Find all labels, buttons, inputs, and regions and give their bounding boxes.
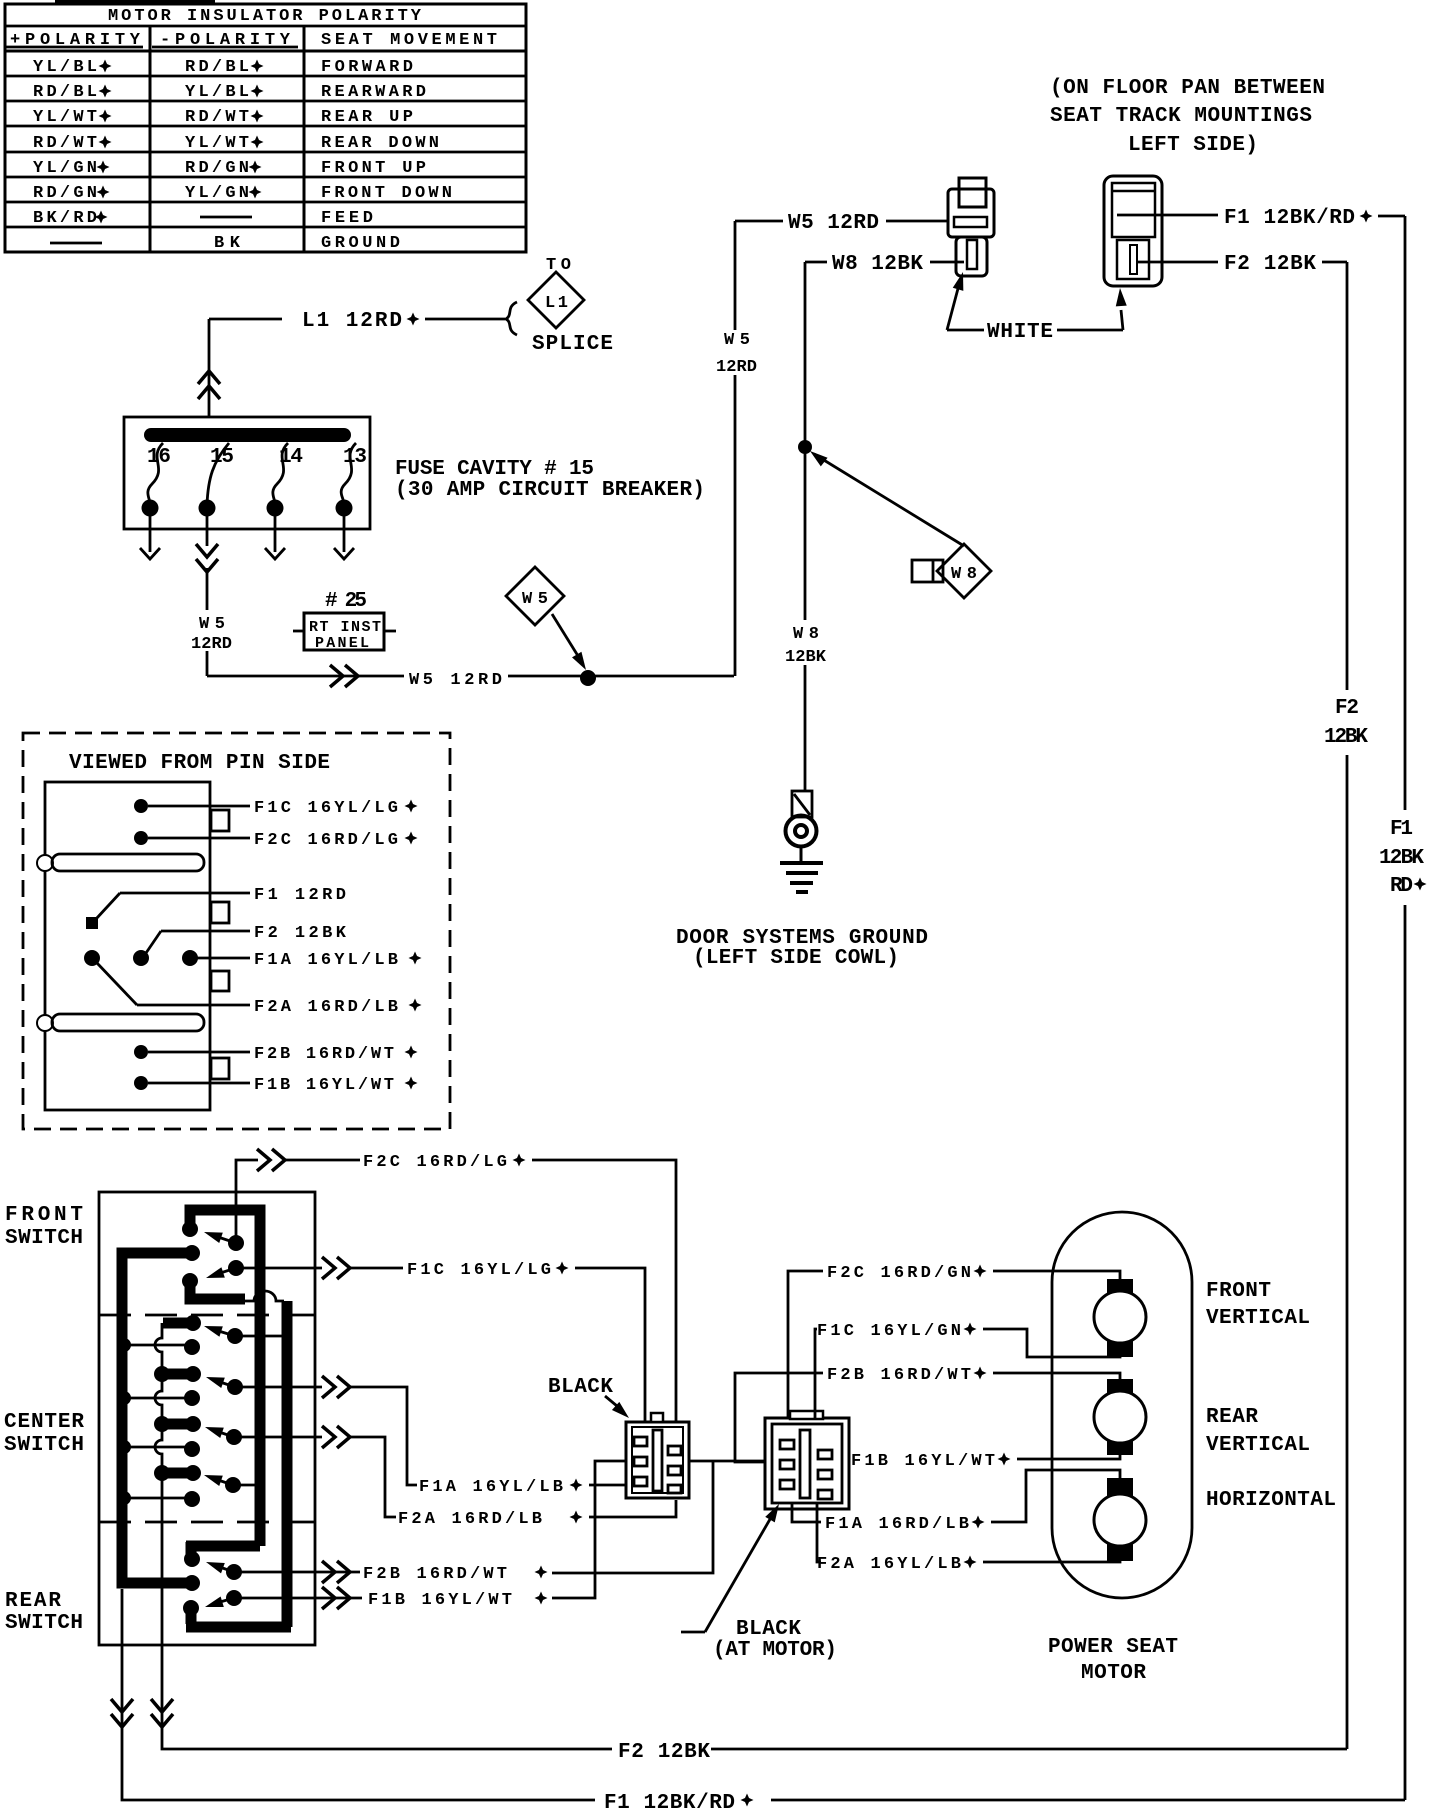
table row GROUND [50,234,400,253]
wire F2B motor label to comb [735,1373,823,1462]
thick stub center row2 [162,1369,193,1380]
table row FRONT UP [33,159,426,178]
svg-text:RT INST: RT INST [309,619,381,636]
motor front vertical [1094,1291,1146,1343]
connector white (left, W5/W8) [948,178,994,276]
svg-text:SPLICE: SPLICE [532,333,613,356]
wiper center row3 (F2A) [226,1429,242,1445]
thick trace front C-shape [190,1210,260,1546]
contact dots center stubs [185,1315,201,1331]
svg-text:PANEL: PANEL [315,635,369,652]
fuse element 13 [341,443,356,504]
arc hop over bus to right trace [245,1291,284,1301]
svg-text:12RD: 12RD [716,358,757,377]
svg-text:13: 13 [343,446,367,469]
svg-text:F2 12BK: F2 12BK [618,1741,710,1764]
svg-text:REAR: REAR [5,1590,61,1613]
svg-text:-POLARITY: -POLARITY [160,31,291,50]
svg-text:12BK: 12BK [1379,847,1424,870]
svg-text:W5 12RD: W5 12RD [409,671,502,690]
svg-text:# 25: # 25 [325,590,367,613]
svg-text:F2C 16RD/GN: F2C 16RD/GN [827,1264,971,1283]
wiper center row1 [227,1328,243,1344]
wiper center row4 [225,1477,241,1493]
connector left notches [37,855,53,871]
fuse 14 output arrow [265,515,285,559]
wiper rear row1 (F2B) [226,1564,242,1580]
wire F2C label to comb [532,1160,676,1424]
wire W5 12RD right vertical [735,221,783,676]
svg-text:(ON FLOOR PAN BETWEEN: (ON FLOOR PAN BETWEEN [1050,77,1325,100]
thick stub center row3 [162,1419,193,1430]
splice symbol W8 [937,544,991,598]
wire F1 12BK/RD bottom [771,1799,1405,1802]
svg-text:F2B 16RD/WT: F2B 16RD/WT [363,1565,507,1584]
pin F2 [146,931,250,953]
svg-text:REAR: REAR [1206,1406,1258,1429]
svg-text:F1A 16YL/LB: F1A 16YL/LB [254,951,398,970]
thick stub center row4 [162,1468,193,1479]
table row FEED [33,209,373,228]
svg-text:VIEWED FROM PIN SIDE: VIEWED FROM PIN SIDE [69,752,330,775]
lone contact dots center [184,1339,200,1355]
svg-text:(30 AMP CIRCUIT BREAKER): (30 AMP CIRCUIT BREAKER) [395,479,705,502]
arrow WHITE to left connector [947,270,984,330]
svg-text:F2: F2 [1335,697,1359,720]
svg-text:MOTOR: MOTOR [1081,1662,1146,1685]
svg-text:F1A 16RD/LB: F1A 16RD/LB [825,1515,969,1534]
chevron F2C [257,1149,285,1171]
svg-text:LEFT SIDE): LEFT SIDE) [1128,134,1258,157]
wire F1C label to comb [575,1268,645,1424]
wire F2B label to right [552,1460,713,1573]
wire W8 12BK to connector [805,261,964,264]
splice squiggle [506,302,517,335]
svg-text:FRONT: FRONT [1206,1280,1271,1303]
svg-text:+POLARITY: +POLARITY [10,31,141,50]
svg-text:RD: RD [1390,875,1413,898]
table row REAR UP [33,108,413,127]
chevron down exit left [111,1699,133,1727]
thick stub center row1 [163,1318,196,1329]
svg-text:POWER SEAT: POWER SEAT [1048,1636,1178,1659]
thick trace right bus2 [282,1301,293,1627]
wire F1C motor [815,1329,817,1418]
wiper rear row2 (F1B) [226,1590,242,1606]
pin F1C [134,799,148,813]
svg-text:F1A 16YL/LB: F1A 16YL/LB [419,1478,563,1497]
wiper front row2 (F1C) [228,1260,244,1276]
wire F1A motor [792,1503,821,1522]
svg-text:12BK: 12BK [785,648,827,667]
svg-text:W8 12BK: W8 12BK [832,253,923,276]
svg-text:FUSE CAVITY # 15: FUSE CAVITY # 15 [395,458,594,481]
fuse 13 output arrow [334,515,354,559]
svg-text:WHITE: WHITE [987,321,1053,344]
power seat motor housing [1052,1212,1192,1598]
chevron up on L1 wire [198,371,220,399]
splice symbol L1 [528,272,584,328]
svg-text:YL/GN: YL/GN [185,184,249,203]
wire chain with hops (center common) [155,1323,612,1749]
wire F1A label to comb [589,1484,640,1487]
svg-text:F2 12BK: F2 12BK [1224,253,1316,276]
motor horizontal terminals [1107,1478,1133,1497]
svg-text:REAR DOWN: REAR DOWN [321,134,439,153]
svg-text:BK/RD: BK/RD [33,209,97,228]
svg-text:RD/GN: RD/GN [33,184,97,203]
table row FORWARD [33,58,413,77]
chevron down exit right [151,1699,173,1727]
svg-text:FORWARD: FORWARD [321,58,413,77]
wire F2C motor [788,1271,823,1418]
svg-text:VERTICAL: VERTICAL [1206,1434,1310,1457]
pin F2C [134,831,148,845]
connector body (pin side view) [45,782,210,1110]
bus tap lines center [122,1345,190,1498]
svg-text:12BK: 12BK [1324,726,1368,749]
table row FRONT DOWN [33,184,452,203]
thick trace left bus [122,1253,192,1583]
svg-text:F1 12RD: F1 12RD [254,886,346,905]
svg-text:RD/GN: RD/GN [185,159,249,178]
svg-text:F2A 16YL/LB: F2A 16YL/LB [817,1555,961,1574]
splice symbol W5 [506,567,564,625]
svg-text:YL/GN: YL/GN [33,159,97,178]
svg-text:F1: F1 [1390,818,1413,841]
wire W8 12BK vertical [804,262,807,790]
connector right tab squares [211,810,229,1079]
svg-text:BLACK: BLACK [736,1618,801,1641]
thick trace rear bottom elbow [186,1608,291,1627]
svg-text:CENTER: CENTER [4,1411,84,1434]
svg-text:VERTICAL: VERTICAL [1206,1307,1310,1330]
wiper center row2 (F1A) [227,1379,243,1395]
fuse element 15 [207,443,229,505]
comb connector black (switch side) [626,1413,689,1498]
svg-text:SEAT TRACK MOUNTINGS: SEAT TRACK MOUNTINGS [1050,105,1312,128]
arrow W5 splice to junction [552,614,583,664]
scan smudge top edge [55,0,215,5]
connector slot upper [52,854,204,871]
arrow WHITE to right connector [1057,288,1127,330]
comb connector black (at motor) [765,1411,849,1509]
wire F2A motor [817,1503,821,1562]
thick trace rear top elbow [186,1542,260,1556]
wire from left bus to exit F1 [122,1589,595,1800]
connector white (right, F1/F2) [1104,176,1162,286]
svg-text:F1B 16YL/WT: F1B 16YL/WT [368,1591,512,1610]
svg-text:F1C 16YL/LG: F1C 16YL/LG [254,799,398,818]
junction node W8 [798,440,812,454]
table row REAR DOWN [33,134,439,153]
fuse bus bar [144,428,351,442]
chevron down on W5 wire [196,544,218,572]
svg-text:F2C 16RD/LG: F2C 16RD/LG [254,831,398,850]
pin F1A row dots [84,950,100,966]
chevron right on W5 wire [330,665,358,687]
ground symbol (eyelet) [780,791,823,892]
svg-text:F1 12BK/RD: F1 12BK/RD [604,1792,735,1812]
wiper front row1 (F2C) [228,1235,244,1251]
dashed box VIEWED FROM PIN SIDE [23,733,450,1129]
svg-text:RD/BL: RD/BL [185,58,249,77]
motor front vertical terminals [1107,1279,1133,1298]
contact dots on traces front [182,1221,198,1237]
svg-text:F1C 16YL/LG: F1C 16YL/LG [407,1261,551,1280]
table MOTOR INSULATOR POLARITY frame [5,4,526,252]
wire W5 12RD from fuse 15 [207,515,734,676]
svg-text:BLACK: BLACK [548,1376,613,1399]
svg-text:YL/BL: YL/BL [33,58,97,77]
svg-text:YL/BL: YL/BL [185,83,249,102]
connector slot lower [52,1014,204,1031]
arrow W8 splice to junction [814,454,964,546]
pin F2A [97,963,250,1005]
svg-text:F2A 16RD/LB: F2A 16RD/LB [398,1510,542,1529]
svg-text:F1B 16YL/WT: F1B 16YL/WT [851,1452,995,1471]
svg-text:FRONT: FRONT [5,1204,83,1227]
bus junction dots [117,1338,131,1352]
arrow BLACK to comb [605,1396,623,1411]
motor rear vertical terminals [1107,1379,1133,1398]
wire F2 12BK [1137,262,1347,1749]
svg-text:(AT MOTOR): (AT MOTOR) [713,1639,837,1662]
svg-text:W5 12RD: W5 12RD [788,212,879,235]
arrow BLACK AT MOTOR to comb [681,1514,773,1632]
wire F1 12BK/RD [1117,215,1405,1800]
svg-text:YL/WT: YL/WT [33,108,97,127]
svg-text:F2A 16RD/LB: F2A 16RD/LB [254,998,398,1017]
svg-text:F2C 16RD/LG: F2C 16RD/LG [363,1153,507,1172]
svg-text:RD/WT: RD/WT [33,134,97,153]
pin F1B [134,1076,148,1090]
connector stub at W8 splice [912,560,943,582]
fuse element 14 [273,443,288,504]
svg-text:12RD: 12RD [191,635,232,654]
pin F2B [134,1045,148,1059]
switch section divider front/center [99,1314,315,1317]
connector RT INST PANEL [293,613,396,650]
contact dots rear [184,1551,200,1567]
wire F1C to label [350,1267,403,1270]
svg-text:SWITCH: SWITCH [5,1227,83,1250]
switch box [99,1192,315,1645]
svg-text:HORIZONTAL: HORIZONTAL [1206,1489,1336,1512]
svg-text:F1B 16YL/WT: F1B 16YL/WT [254,1076,394,1095]
svg-text:SWITCH: SWITCH [5,1612,83,1635]
svg-text:REAR UP: REAR UP [321,108,413,127]
table row REARWARD [33,83,426,102]
wire F1B label up and over [552,1461,848,1598]
wire WS 12RD to connector [886,220,948,223]
chevron F1C [322,1257,350,1279]
svg-text:L1 12RD: L1 12RD [302,310,402,333]
svg-text:RD/WT: RD/WT [185,108,249,127]
motor horizontal [1094,1494,1146,1546]
junction node W5 [580,670,596,686]
svg-text:YL/WT: YL/WT [185,134,249,153]
fuse element 16 [148,443,163,504]
pin F1 [86,917,98,929]
fuse 16 output arrow [140,515,160,559]
svg-text:F1 12BK/RD: F1 12BK/RD [1224,207,1355,230]
wire L1 12RD [209,319,505,417]
svg-text:F1C 16YL/GN: F1C 16YL/GN [817,1322,961,1341]
wire F2A label to comb [589,1500,676,1517]
svg-text:F2B 16RD/WT: F2B 16RD/WT [254,1045,394,1064]
svg-text:RD/BL: RD/BL [33,83,97,102]
wire F2C to label [285,1159,360,1162]
svg-text:F2B 16RD/WT: F2B 16RD/WT [827,1366,971,1385]
switch section divider center/rear [99,1521,315,1524]
motor rear vertical [1094,1391,1146,1443]
svg-text:(LEFT SIDE COWL): (LEFT SIDE COWL) [693,947,899,970]
wire F2 12BK bottom [711,1748,1347,1751]
fuse block box [124,417,370,529]
svg-text:SWITCH: SWITCH [4,1434,84,1457]
